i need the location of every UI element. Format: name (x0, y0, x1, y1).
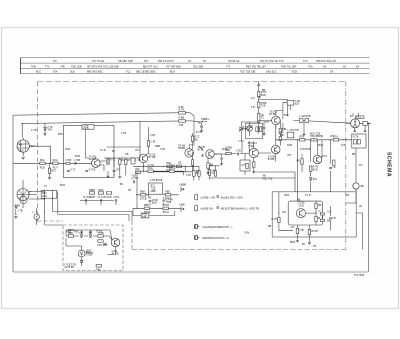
svg-text:CBBB s: CBBB s (201, 118, 210, 121)
svg-text:LTB: LTB (299, 229, 304, 232)
svg-text:TTV: TTV (45, 65, 50, 68)
svg-text:TB: TB (89, 232, 92, 235)
svg-text:FHASE&STREMONT( - |: FHASE&STREMONT( - | (203, 225, 233, 229)
svg-text:B.TC: B.TC (196, 131, 202, 134)
svg-text:TCL: TCL (126, 71, 131, 74)
svg-text:TCB: TCB (186, 174, 191, 177)
resistor R41 vertical (315, 216, 322, 221)
diode D3 (89, 231, 92, 237)
stage loop wire (63, 125, 114, 177)
svg-text:RCB: RCB (65, 148, 70, 151)
pickup box (141, 213, 149, 219)
legend icon 2 (217, 205, 219, 210)
svg-text:RC: RC (359, 164, 363, 167)
DIN jack J1 (179, 184, 187, 192)
svg-text:TCB: TCB (179, 124, 184, 127)
svg-text:SJC TKJ TAV SU TVC: SJC TKJ TAV SU TVC (260, 60, 284, 63)
capacitor C10 (162, 199, 173, 205)
wire lamp down (346, 189, 356, 203)
wire antenna to bus (22, 124, 50, 164)
ground below T6 (252, 172, 255, 174)
svg-text:RBC: RBC (99, 189, 104, 192)
ferrite antenna L1 (17, 138, 35, 153)
ground left-bottom (14, 217, 17, 219)
svg-text:BT.BB: BT.BB (178, 147, 185, 150)
svg-text:R.BB: R.BB (179, 117, 185, 120)
transistor T4 (269, 110, 280, 124)
svg-text:BCA: BCA (170, 71, 175, 74)
transistor T5 (268, 145, 280, 161)
resistor R35 (299, 135, 305, 141)
capacitor C2 (67, 168, 76, 171)
resistor R19 (176, 162, 181, 168)
resistor R2 (53, 159, 59, 169)
capacitor C20 at T6 input (220, 158, 223, 159)
svg-text:TS.L: TS.L (356, 116, 362, 119)
svg-text:(TB) BBB(B): (TB) BBB(B) (310, 135, 323, 138)
svg-text:T.B: T.B (251, 106, 255, 109)
label box above T7 (355, 116, 364, 119)
wire detector (283, 103, 291, 133)
svg-text:BBJ STT SLC: BBJ STT SLC (143, 65, 158, 68)
ceramic filter box (240, 160, 250, 171)
svg-text:TCB BCB: TCB BCB (300, 148, 311, 151)
svg-text:RCB: RCB (40, 166, 45, 169)
svg-text:BT5: BT5 (51, 170, 56, 173)
svg-text:RCB: RCB (284, 194, 289, 197)
resistor R4 vertical (107, 159, 116, 165)
svg-text:CB: CB (125, 153, 129, 156)
junction dots various (22, 99, 357, 214)
svg-text:SLB: SLB (70, 71, 75, 74)
transistor T3 (178, 144, 193, 157)
svg-text:RCA: RCA (53, 159, 58, 162)
svg-text:(Hx)(F) 500 + 20%: (Hx)(F) 500 + 20% (221, 195, 244, 199)
svg-text:KA: KA (188, 60, 192, 63)
resistor R32 vertical (207, 163, 214, 168)
parts table frame (21, 58, 370, 74)
resistor R49 pair right (260, 127, 262, 132)
svg-text:TBJ KJ KG HV: TBJ KJ KG HV (158, 60, 174, 63)
resistor R6 (125, 159, 131, 165)
wire upper mid cluster (107, 96, 261, 147)
resistor R51 vertical (191, 160, 193, 165)
trimmer CT1 (247, 126, 253, 132)
svg-text:/ µF(B) 5%: / µF(B) 5% (200, 206, 214, 210)
svg-text:HTCB: HTCB (87, 252, 94, 255)
svg-text:BB: BB (262, 89, 266, 92)
capacitor C19 at T4 base (263, 128, 266, 129)
detector row wire (276, 139, 346, 141)
svg-text:BT BB: BT BB (149, 156, 156, 159)
svg-text:AB: AB (263, 175, 267, 178)
output transistor T7 (350, 115, 360, 128)
junction dots upper cluster (121, 146, 140, 158)
svg-text:TCTB: TCTB (96, 231, 103, 234)
svg-text:BCB: BCB (152, 202, 157, 205)
resistor R52 vertical (198, 171, 200, 176)
svg-text:R.C: R.C (251, 97, 255, 100)
svg-text:BCB: BCB (313, 168, 318, 171)
svg-text:TC.B: TC.B (305, 194, 311, 197)
wire T1 connections (91, 161, 106, 171)
resistor R15 on second rail (179, 117, 186, 127)
capacitor C8 (131, 175, 138, 184)
wire horizontals left-bottom (29, 199, 132, 225)
svg-text:TC: TC (44, 185, 47, 188)
svg-text:BB: BB (196, 170, 200, 173)
resistor R12 (98, 240, 109, 247)
coil L3 (131, 158, 141, 164)
svg-text:BcT: BcT (20, 149, 25, 152)
svg-text:RCB: RCB (107, 196, 112, 199)
capacitor C12 (258, 113, 265, 122)
svg-text:AT GB: AT GB (112, 253, 119, 256)
svg-text:TTT: TTT (226, 65, 231, 68)
svg-text:MBD: MBD (151, 190, 157, 193)
varicap D5 (239, 126, 253, 132)
ground below C18 (200, 131, 203, 133)
svg-text:VTB: VTB (60, 65, 65, 68)
svg-text:SC: SC (343, 65, 347, 68)
svg-text:LB: LB (333, 166, 336, 169)
wire output box (279, 192, 331, 231)
svg-text:ABL TCB: ABL TCB (263, 177, 273, 180)
svg-text:SA: SA (323, 65, 327, 68)
arrow gnd below (15, 209, 17, 215)
svg-text:C.TB BCCB: C.TB BCCB (150, 179, 163, 182)
diode D4 (80, 260, 83, 262)
svg-text:BC: BC (302, 243, 306, 246)
svg-text:TMC SCB: TMC SCB (71, 65, 82, 68)
svg-text:LB: LB (80, 232, 83, 235)
svg-text:2TCA: 2TCA (113, 196, 120, 199)
wire R16 (139, 121, 148, 158)
svg-text:BTCB: BTCB (140, 198, 147, 201)
resistor R11 (98, 232, 105, 237)
wire C19 (264, 122, 269, 133)
resistor R47 below T6 (253, 162, 255, 167)
legend electrolytic symbol 1 (195, 194, 198, 200)
resistor R34 vertical (246, 163, 248, 168)
ground T9 (206, 173, 209, 175)
dashed chassis boundary (bottom-left jog vertical) (131, 221, 133, 250)
resistor R5 (119, 159, 126, 165)
svg-text:REPRODUCTION + 0: REPRODUCTION + 0 (203, 236, 230, 240)
wire below box (297, 225, 309, 242)
parts table row 2 text (31, 65, 360, 68)
svg-text:STA: STA (53, 71, 58, 74)
capacitor C17 (329, 217, 336, 220)
svg-text:BTCB: BTCB (163, 204, 170, 207)
resistor R14 on top rail (179, 106, 186, 114)
svg-text:/ µF(B) + 5%: / µF(B) + 5% (200, 195, 216, 199)
svg-text:BB: BB (352, 153, 356, 156)
resistor R3 vertical (48, 168, 56, 173)
resistor R29 vertical (258, 102, 267, 108)
svg-text:L.TB (TCB: L.TB (TCB (288, 129, 300, 132)
resistor R33 (225, 147, 232, 155)
svg-text:SCHEMA: SCHEMA (386, 152, 392, 177)
wire AF cluster lower (302, 154, 331, 192)
signal bus wire (second rail) (22, 121, 191, 124)
wire right output (297, 162, 362, 250)
svg-text:C.TB: C.TB (31, 129, 37, 132)
svg-text:TSA: TSA (308, 65, 313, 68)
svg-text:TKT SAT BKS: TKT SAT BKS (166, 65, 181, 68)
output stage box (272, 192, 356, 237)
svg-text:RBL: RBL (96, 268, 101, 271)
resistor R16 vertical (147, 141, 156, 147)
svg-text:TCB: TCB (341, 144, 346, 147)
resistor R36 (333, 135, 339, 141)
diode D1 (44, 128, 47, 130)
svg-text:1 TB: 1 TB (18, 209, 23, 212)
svg-text:TCB: TCB (131, 175, 136, 178)
capacitor C15 (279, 131, 283, 136)
svg-text:SAD SCC: SAD SCC (266, 71, 277, 74)
svg-text:TM 7506: TM 7506 (354, 273, 365, 277)
svg-text:(-)BBB: (-)BBB (179, 184, 187, 187)
output stage inner loop (288, 201, 322, 225)
ground 2 below output box (308, 243, 311, 245)
svg-text:BTB: BTB (58, 133, 63, 136)
resistor R24 (144, 204, 151, 214)
capacitor C3 (85, 168, 95, 171)
wire sub-module row2 (137, 192, 179, 206)
coil L4 box (287, 129, 299, 138)
svg-text:BB: BB (268, 225, 272, 228)
svg-text:TM: TM (53, 60, 56, 63)
output unit dashed box (63, 225, 123, 271)
capacitor C18 below junction (200, 126, 203, 127)
svg-text:BCB: BCB (60, 184, 65, 187)
diode marks left of gang (15, 206, 18, 208)
svg-text:P.TA: P.TA (322, 155, 327, 158)
thermistor box at T7 (363, 121, 371, 125)
wire lower row y208 (133, 207, 181, 209)
svg-text:RBBT: RBBT (89, 189, 96, 192)
filter module box (149, 179, 163, 194)
svg-text:R.BL: R.BL (179, 106, 185, 109)
wire C20 (214, 154, 226, 163)
svg-text:RKA: RKA (40, 159, 45, 162)
dashed chassis boundary (bottom) (132, 249, 346, 251)
resistor R46 below box (308, 229, 318, 234)
resistor R38 vertical (310, 166, 319, 172)
svg-text:TC: TC (261, 116, 264, 119)
transistor T1 (89, 156, 100, 168)
svg-text:SBL CB SBC BBS: SBL CB SBC BBS (136, 71, 156, 74)
resistor R28 vertical (258, 91, 267, 97)
svg-text:SKT BTS HTK TKC LCB SSB: SKT BTS HTK TKC LCB SSB (87, 65, 119, 68)
wire meter (66, 239, 116, 267)
wire driver transformer (346, 140, 356, 183)
svg-text:5uT: 5uT (31, 145, 36, 148)
dashed chassis boundary (bottom-left jog horizontal) (38, 220, 63, 222)
ground below D1 (43, 134, 46, 136)
svg-text:TM SK GA: TM SK GA (228, 60, 240, 63)
legend electrolytic symbol 2 (195, 205, 198, 211)
capacitor C9 (149, 199, 159, 205)
svg-text:R.GA: R.GA (179, 109, 185, 112)
resistor R40 vertical (315, 203, 322, 208)
svg-text:LBA: LBA (135, 168, 140, 171)
svg-text:TCBB: TCBB (169, 165, 176, 168)
svg-text:SA: SA (356, 65, 360, 68)
ground below R3 (48, 178, 51, 180)
wire AF feed lower (209, 172, 295, 192)
svg-text:R.TB: R.TB (271, 218, 277, 221)
transistor T6 (248, 142, 259, 157)
AF driver cluster wires (297, 140, 330, 164)
junction dots mid row (143, 166, 186, 173)
svg-text:TB: TB (128, 189, 131, 192)
svg-text:(CB: (CB (295, 103, 300, 106)
svg-text:TKB: TKB (31, 65, 36, 68)
IF transformer (299, 115, 311, 122)
svg-text:BB: BB (194, 139, 198, 142)
svg-text:TK7: TK7 (144, 60, 149, 63)
svg-text:TCB: TCB (160, 148, 165, 151)
capacitor C6 (98, 196, 105, 202)
svg-text:PBC TAS TBL LBT: PBC TAS TBL LBT (246, 65, 267, 68)
wire varicap (238, 122, 259, 141)
legend circle icon 4 (195, 236, 200, 240)
svg-text:TGT: TGT (303, 60, 308, 63)
resistor R10 (68, 229, 75, 237)
capacitor C16 (329, 166, 336, 169)
wire C18 (199, 122, 202, 130)
svg-text:TCB: TCB (261, 104, 266, 107)
driver transformer box (352, 134, 366, 148)
wire R3 (49, 163, 51, 177)
resistor R25 (163, 204, 170, 214)
svg-text:(TLB): (TLB) (248, 145, 254, 148)
svg-text:BT.B: BT.B (245, 129, 250, 132)
IF bus vertical (258, 82, 260, 134)
legend icon 1 (217, 195, 218, 198)
svg-text:LTB: LTB (237, 149, 242, 152)
DIN jack J2 (179, 204, 185, 212)
svg-text:BCB: BCB (290, 241, 295, 244)
svg-text:RBC: RBC (165, 191, 170, 194)
svg-text:LTC: LTC (330, 135, 335, 138)
meter V1 (78, 250, 92, 257)
svg-text:LB: LB (279, 131, 282, 134)
svg-text:MB: MB (19, 143, 23, 146)
ground C20 (220, 164, 223, 166)
resistor R1 (40, 159, 46, 169)
svg-text:4.TB: 4.TB (121, 132, 126, 135)
wire sub-module verticals (136, 171, 184, 208)
svg-text:1.TCB: 1.TCB (74, 159, 81, 162)
coil L2 (65, 159, 71, 164)
svg-text:BB: BB (327, 220, 331, 223)
wire mid row (104, 158, 140, 176)
wire T6 area (231, 141, 271, 175)
wire amp box top row (66, 230, 112, 240)
resistor R9 (106, 192, 112, 199)
wire trimmer (242, 122, 250, 136)
wires cap row (80, 201, 116, 206)
resistor R42 small (320, 211, 331, 215)
resistor R22 (140, 191, 147, 201)
transistor T9 (198, 146, 215, 158)
resistor R31 vertical (279, 137, 281, 141)
svg-text:4.7C: 4.7C (70, 168, 75, 171)
capacitor C4 (113, 168, 121, 171)
wire T3 collector (189, 133, 192, 149)
svg-text:RTCB: RTCB (311, 230, 318, 233)
capacitor C14 (237, 149, 242, 155)
wire verticals left-bottom (37, 190, 58, 226)
wire gang to top (23, 180, 45, 208)
svg-text:TS.B: TS.B (298, 204, 304, 207)
junction dots left-bottom (44, 198, 53, 212)
ground under IF transformer (302, 134, 305, 136)
svg-text:RBL: RBL (103, 243, 108, 246)
resistor R37 vertical (297, 159, 304, 164)
svg-text:BCB: BCB (261, 94, 266, 97)
svg-text:RBB: RBB (66, 231, 71, 234)
svg-text:SCB: SCB (292, 71, 297, 74)
svg-text:R.TC: R.TC (110, 159, 116, 162)
arrow pin under T7 (354, 130, 356, 132)
svg-text:TB: TB (313, 245, 316, 248)
output box inner labels (283, 199, 322, 249)
extra label blobs (scan texture) (31, 89, 363, 244)
svg-text:(TLB): (TLB) (298, 202, 304, 205)
svg-text:CB CBC TGB: CB CBC TGB (118, 60, 133, 63)
svg-text:BCB: BCB (222, 148, 227, 151)
wire pickup (133, 208, 175, 215)
svg-text:L.GB BCB: L.GB BCB (300, 115, 311, 118)
wire bus drop at x190 (190, 113, 199, 146)
svg-text:C.BT: C.BT (150, 141, 156, 144)
dashed chassis boundary (top) (38, 81, 346, 83)
wire row y163 (13, 162, 91, 164)
svg-text:(-)BB: (-)BB (179, 204, 185, 207)
svg-text:C.BT: C.BT (150, 134, 156, 137)
parts table row 3 text (36, 71, 334, 74)
svg-text:RBB: RBB (144, 204, 149, 207)
pilot lamp LA1 (353, 183, 364, 189)
diode D7 (309, 178, 318, 181)
svg-text:BCB: BCB (75, 155, 80, 158)
resistor R44 vertical (271, 217, 280, 222)
svg-text:B.TCA: B.TCA (83, 196, 90, 199)
svg-text:RCB: RCB (287, 144, 292, 147)
svg-text:LTC: LTC (135, 149, 140, 152)
tuning gang capacitor CV1 (15, 189, 32, 208)
svg-text:MB: MB (360, 185, 364, 188)
svg-text:KC: KC (203, 60, 207, 63)
svg-text:LB: LB (359, 205, 362, 208)
svg-text:ABJUSTBB (NxN%) (,) +250 TB: ABJUSTBB (NxN%) (,) +250 TB (221, 206, 259, 210)
wire below T6 (253, 161, 255, 171)
svg-text:RBA: RBA (140, 191, 145, 194)
svg-text:BTCA: BTCA (163, 211, 170, 214)
junction dot row (343, 139, 344, 140)
svg-text:BBS SKS BSC: BBS SKS BSC (87, 71, 103, 74)
svg-text:RB: RB (283, 211, 287, 214)
ground below output box (296, 241, 299, 243)
transistor T2 (139, 153, 156, 162)
legend circle icon 3 (195, 225, 200, 229)
svg-text:R.TB: R.TB (353, 136, 359, 139)
svg-text:TCK TCB SJB: TCK TCB SJB (240, 71, 256, 74)
